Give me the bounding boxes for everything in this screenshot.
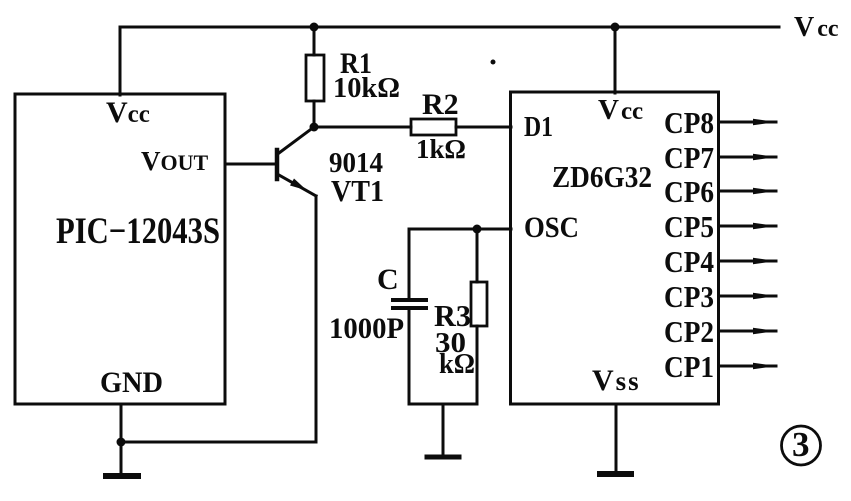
resistor R3 — [471, 229, 487, 404]
IC U2 ZD6G32 box — [511, 92, 719, 404]
wire: VT1 emitter down — [315, 196, 318, 442]
wire: CP8 output arrow — [719, 119, 778, 125]
wire: PIC Vcc pin to top rail — [119, 27, 122, 95]
wire: CP6 output arrow — [719, 188, 778, 194]
capacitor C — [393, 229, 426, 404]
svg-text:Vcc: Vcc — [794, 12, 839, 43]
wire: PIC GND pin down — [120, 404, 123, 442]
wire: top rail to U2 Vcc pin — [614, 27, 617, 93]
svg-text:Vss: Vss — [592, 364, 641, 397]
node: R1 / R2 / VT1 collector junction — [310, 123, 319, 132]
wire: R1 node to R2 — [314, 126, 411, 129]
transistor VT1 — [277, 127, 316, 196]
wire: CP5 output arrow — [719, 223, 778, 229]
wire: OSC net (C top / R3 top to OSC pin) — [409, 228, 511, 231]
svg-text:VOUT: VOUT — [141, 146, 209, 176]
wire: CP2 output arrow — [719, 328, 778, 334]
svg-text:VT1: VT1 — [331, 173, 384, 208]
svg-text:1000P: 1000P — [329, 312, 404, 345]
node: top rail / R1 junction — [310, 23, 319, 32]
svg-text:OSC: OSC — [524, 211, 579, 244]
ink speck (scan artifact) — [491, 60, 496, 65]
svg-text:C: C — [377, 263, 399, 296]
node: OSC / R3 junction — [473, 225, 482, 234]
svg-text:PIC−12043S: PIC−12043S — [56, 211, 220, 252]
svg-text:CP7: CP7 — [664, 140, 714, 175]
wire: CP4 output arrow — [719, 258, 778, 264]
svg-text:10kΩ: 10kΩ — [333, 72, 400, 104]
wire: Vout to VT1 base — [225, 163, 276, 166]
IC U1 PIC-12043S box — [15, 94, 225, 404]
svg-text:ZD6G32: ZD6G32 — [552, 159, 652, 194]
wire: CP1 output arrow — [719, 363, 778, 369]
resistor R1 — [306, 27, 324, 127]
node: top rail / U2 Vcc junction — [611, 23, 620, 32]
svg-text:Vcc: Vcc — [598, 94, 643, 126]
svg-text:CP6: CP6 — [664, 174, 714, 209]
wire: C / R3 bottom join — [409, 403, 477, 406]
svg-text:R2: R2 — [422, 88, 459, 121]
svg-text:CP5: CP5 — [664, 209, 714, 244]
svg-text:1kΩ: 1kΩ — [416, 134, 466, 164]
ground (PIC GND) — [106, 442, 138, 476]
svg-text:3: 3 — [792, 425, 810, 464]
wire: Vcc top rail — [120, 26, 779, 29]
resistor R2 — [411, 119, 456, 135]
svg-text:CP4: CP4 — [664, 244, 714, 279]
figure number 3 (circled) — [782, 425, 821, 465]
node: GND junction — [117, 438, 126, 447]
wire: U2 Vss pin to ground — [615, 404, 618, 471]
wire: CP7 output arrow — [719, 154, 778, 160]
svg-text:GND: GND — [100, 366, 163, 399]
wire: CP3 output arrow — [719, 293, 778, 299]
svg-text:kΩ: kΩ — [439, 349, 475, 380]
svg-text:CP1: CP1 — [664, 349, 714, 384]
svg-text:Vcc: Vcc — [106, 96, 150, 129]
wire: GND junction to VT1 emitter — [121, 441, 316, 444]
wire: R2 to D1 pin — [456, 126, 511, 129]
svg-text:D1: D1 — [524, 111, 553, 143]
svg-text:CP8: CP8 — [664, 105, 714, 140]
ground (C/R3 net) — [427, 404, 459, 457]
svg-text:CP2: CP2 — [664, 314, 714, 349]
ground (Vss) — [600, 471, 631, 477]
svg-text:CP3: CP3 — [664, 279, 714, 314]
